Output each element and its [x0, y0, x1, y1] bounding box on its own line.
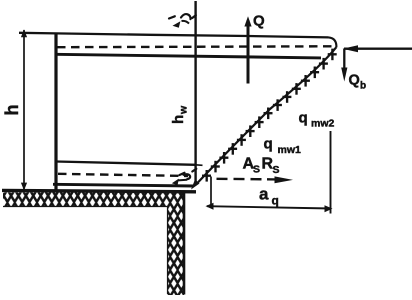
a_q right extension line: [330, 131, 332, 214]
a_q right arrowhead: [325, 205, 333, 212]
svg-text:q: q: [264, 136, 273, 153]
beam top flange bottom edge: [55, 54, 321, 58]
svg-text:Q: Q: [349, 73, 360, 89]
dimension line h: [23, 30, 25, 190]
support reaction arrow (horizontal, pointing left): [344, 48, 412, 50]
wall strip left boundary: [167, 207, 169, 295]
h bottom arrowhead: [21, 183, 27, 191]
label t (rotated handwritten): [180, 169, 197, 180]
svg-text:b: b: [360, 81, 366, 92]
stirrup cross marks on crack: [202, 49, 337, 182]
svg-text:S: S: [273, 164, 280, 176]
svg-text:q: q: [272, 194, 279, 208]
beam top flange centerline (dashed): [57, 45, 334, 48]
svg-text:h: h: [170, 115, 187, 124]
wall face (left column line): [54, 33, 57, 191]
beam bottom edge: [53, 184, 194, 186]
beam end taper curve: [329, 37, 337, 47]
ground hatch band: [3, 192, 184, 206]
t' leader arrow: [182, 21, 190, 24]
svg-text:mw1: mw1: [278, 144, 302, 156]
svg-text:Q: Q: [253, 13, 265, 30]
svg-text:h: h: [2, 105, 22, 116]
svg-text:mw2: mw2: [311, 118, 335, 130]
reinforcement force arrow (dashed, pointing right): [217, 178, 268, 181]
a_q left extension line: [210, 177, 212, 207]
force Q arrow: [247, 20, 250, 84]
a_q left arrowhead: [206, 203, 214, 210]
label h_w: [170, 105, 190, 124]
section line at support face: [194, 1, 196, 185]
beam bottom flange centerline (dashed): [58, 174, 188, 176]
ground surface line: [2, 190, 196, 191]
svg-text:a: a: [259, 185, 269, 204]
ground band bottom boundary: [3, 206, 168, 208]
svg-text:S: S: [253, 164, 260, 176]
dimension line a_q: [207, 206, 331, 208]
inclined crack: [196, 47, 336, 184]
label t' (rotated handwritten): [169, 14, 196, 19]
section line end blob: [191, 180, 200, 190]
wall below (hatched strip): [168, 207, 185, 296]
svg-text:q: q: [299, 110, 308, 127]
beam bottom flange top edge: [56, 162, 196, 165]
lower flange line overrun tick: [196, 164, 203, 167]
wall strip right edge line: [183, 192, 186, 295]
force Qb arrow (down): [343, 49, 345, 74]
t leader arrow: [178, 179, 187, 182]
svg-text:w: w: [178, 105, 190, 115]
h top arrowhead: [21, 29, 27, 37]
beam top edge: [19, 33, 329, 38]
